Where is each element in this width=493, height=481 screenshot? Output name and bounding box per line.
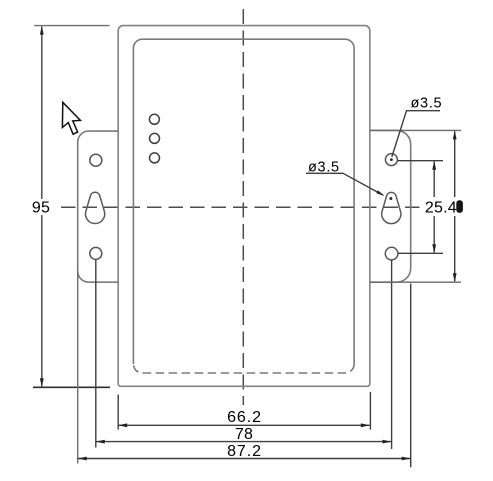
flange height dim: line upper: [454, 131, 456, 197]
flange height dim: top arrow: [453, 130, 457, 139]
dim 78: dimension line: [96, 441, 392, 443]
horizontal center line: [61, 206, 424, 208]
right flange top hole center dot: [390, 158, 393, 161]
dim 66.2: left arrow: [118, 423, 127, 427]
flange height dim: line lower: [454, 216, 456, 281]
flange height dim: top extension line: [370, 129, 461, 131]
dim 87.2: right arrow: [402, 457, 411, 461]
right keyhole center dot: [389, 197, 392, 200]
right flange bottom hole: [385, 247, 398, 260]
svg-text:87.2: 87.2: [227, 443, 262, 460]
dim 25.40: top extension line: [398, 160, 444, 162]
dim 95: top arrow: [40, 26, 44, 35]
left flange top hole: [90, 154, 102, 166]
dim 87.2: dimension line: [78, 458, 411, 460]
led hole 1: [149, 114, 159, 124]
leader ø3.5 lower: underline and leader line: [306, 173, 383, 195]
led hole 3: [150, 153, 160, 163]
enclosure inner face (top/left/right solid): [133, 39, 354, 364]
dim 87.2: left arrow: [78, 457, 87, 461]
flange height dim: bottom extension line: [370, 281, 461, 283]
mouse cursor: [62, 102, 80, 134]
dim 95: top extension line: [34, 25, 109, 27]
right flange keyhole slot: [382, 192, 401, 223]
svg-text:78: 78: [235, 426, 253, 443]
svg-text:ø3.5: ø3.5: [411, 96, 443, 112]
dim 66.2: right extension line: [369, 392, 371, 430]
dim 66.2: dimension line: [118, 424, 370, 426]
dim 25.40: top arrow: [432, 161, 436, 170]
leader ø3.5 upper: underline and leader line: [392, 111, 440, 157]
dim 78: left extension line: [95, 260, 97, 448]
right flange top hole: [385, 154, 397, 166]
right mounting flange: [370, 130, 411, 282]
leader ø3.5 lower: arrowhead: [376, 190, 384, 196]
dim 25.40: bottom arrow: [432, 244, 436, 253]
dim 25.40: dimension line lower: [433, 216, 435, 252]
dim 87.2: right extension line: [410, 284, 412, 468]
dim 78: right arrow: [383, 440, 392, 444]
left mounting flange: [78, 131, 119, 282]
enclosure body outline: [118, 26, 370, 387]
inner face bottom hidden edge: [133, 364, 354, 373]
dim 25.40: dimension line upper: [433, 162, 435, 197]
flange height dim: bottom arrow: [453, 273, 457, 282]
svg-text:95: 95: [32, 200, 50, 217]
dim 66.2: left extension line: [117, 395, 119, 430]
left flange bottom hole: [90, 247, 102, 259]
svg-text:25.4: 25.4: [425, 200, 457, 217]
led hole 2: [150, 133, 160, 143]
dim 66.2: right arrow: [361, 423, 370, 427]
dim 25.40: bottom extension line: [398, 252, 443, 254]
dim 87.2: left extension line: [77, 270, 79, 464]
dim 95: dimension line: [41, 27, 43, 199]
dim 78: right extension line: [391, 260, 393, 449]
left flange keyhole slot: [86, 192, 105, 223]
vertical center line: [242, 9, 244, 405]
svg-text:66.2: 66.2: [227, 409, 262, 426]
dim 78: left arrow: [96, 440, 105, 444]
dim 25.40: filled zero glyph: [456, 200, 463, 213]
dim 95: bottom extension line: [33, 386, 110, 388]
dim 95: bottom arrow: [40, 378, 44, 387]
